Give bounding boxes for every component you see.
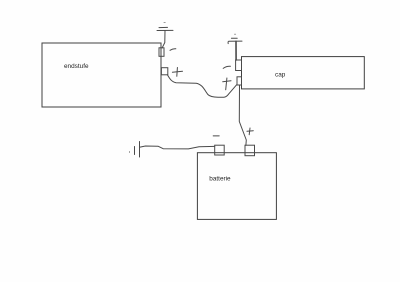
capacitor box C1 "cap" xyxy=(242,57,365,89)
svg-text:batterie: batterie xyxy=(209,176,231,183)
amplifier box U1 "endstufe" xyxy=(42,43,161,107)
plus sign (endstufe) xyxy=(172,68,182,77)
minus sign (cap) xyxy=(223,66,230,68)
ground (chassis, left) xyxy=(130,142,140,158)
wire battery minus to chassis ground xyxy=(140,146,215,149)
terminal endstufe minus xyxy=(159,48,164,57)
wire ground to endstufe minus terminal xyxy=(162,31,165,48)
ground (endstufe) xyxy=(157,23,173,31)
plus sign (battery) xyxy=(247,128,253,135)
wire ground to cap minus terminal xyxy=(235,41,237,60)
terminal endstufe plus xyxy=(161,68,167,75)
svg-text:endstufe: endstufe xyxy=(64,63,89,70)
minus sign (endstufe) xyxy=(170,49,176,51)
minus sign (battery) xyxy=(213,135,219,137)
battery box B1 "batterie" xyxy=(197,153,276,220)
wire cap plus to battery plus xyxy=(239,85,246,145)
ground (cap) xyxy=(228,34,242,43)
terminal battery plus xyxy=(245,145,255,156)
terminal cap plus xyxy=(237,77,242,85)
terminal cap minus xyxy=(236,60,242,71)
wire endstufe plus to cap plus xyxy=(167,75,236,97)
svg-text:cap: cap xyxy=(275,71,286,78)
terminal battery minus xyxy=(215,145,225,155)
plus sign (cap) xyxy=(223,78,231,90)
